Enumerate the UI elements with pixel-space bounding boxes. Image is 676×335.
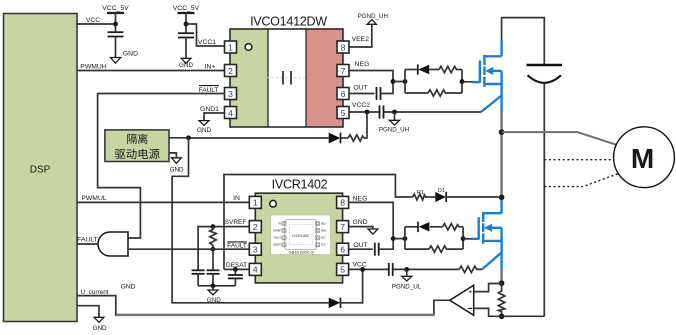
transistor Q2 (lower MOSFET, blue) <box>472 201 502 269</box>
wire VCC2 <box>349 111 380 113</box>
wire DC bus top <box>502 18 545 65</box>
pin 8 NEG <box>337 196 349 208</box>
wire VCC from DSP <box>77 23 116 25</box>
svg-text:FAULT: FAULT <box>274 237 282 240</box>
diode D2 (pointing left) <box>418 64 439 74</box>
op-amp U4 (current sense) <box>450 285 474 315</box>
svg-text:FAULT: FAULT <box>227 243 247 250</box>
svg-text:3: 3 <box>228 89 233 99</box>
wire PWMUH <box>77 70 225 72</box>
wire op-amp input- <box>474 308 502 316</box>
transistor Q1 (upper MOSFET, blue) <box>472 40 502 112</box>
svg-text:VCC: VCC <box>86 17 100 24</box>
svg-text:D1: D1 <box>438 188 445 194</box>
svg-text:VEE2: VEE2 <box>352 36 370 43</box>
svg-text:IVCR1402: IVCR1402 <box>292 234 309 238</box>
pin 7 NEG <box>337 65 349 77</box>
svg-text:VCC2: VCC2 <box>352 102 370 109</box>
svg-text:NEG: NEG <box>321 222 326 225</box>
pin 3 FAULT <box>225 88 237 100</box>
motor M1 <box>614 127 675 188</box>
junction dot <box>392 110 397 115</box>
wire VEE2 to PGND_UH <box>349 24 372 47</box>
wire OUT cap to junction <box>379 239 394 250</box>
svg-text:IVCO1412DW: IVCO1412DW <box>250 15 327 29</box>
wire phase node vertical <box>500 112 503 201</box>
junction dot VCC node <box>113 22 118 27</box>
svg-text:1: 1 <box>228 42 233 52</box>
svg-text:8: 8 <box>341 42 346 52</box>
wire motor phase 3 (dotted) <box>544 174 618 187</box>
svg-text:4: 4 <box>228 108 233 118</box>
wire source to shunt <box>500 269 503 284</box>
svg-text:3: 3 <box>253 245 258 255</box>
node FAULT label (chip1 pin3, overline) <box>199 86 219 95</box>
diode D5 (pointing left) <box>418 222 443 232</box>
ground GND (cap network) <box>207 286 221 304</box>
svg-text:VCC1: VCC1 <box>198 39 216 46</box>
wire from isolated supply to VCC2 <box>364 112 367 138</box>
svg-text:5: 5 <box>341 108 346 118</box>
diode D3 (supply to VCC2) <box>189 133 349 144</box>
capacitor C10 (VCC decoupling) <box>389 263 393 276</box>
svg-text:GND: GND <box>123 51 138 58</box>
svg-text:U_current: U_current <box>80 289 108 296</box>
wire VCC to source resistor <box>393 268 460 270</box>
power VCC_5V supply 1 <box>102 5 129 32</box>
wire top branch <box>405 226 418 228</box>
ground GND (supply block) <box>169 153 184 174</box>
junction dot gate2 node <box>461 236 466 241</box>
wire DESAT <box>224 268 249 270</box>
capacitor C2 <box>178 33 194 58</box>
chip U2 IVCR1402 <box>255 178 342 283</box>
wire OUT chip2 <box>349 248 373 250</box>
junction dot gate node <box>460 79 465 84</box>
pin 1 VCC1 <box>225 41 237 53</box>
junction node A1 <box>391 79 396 84</box>
wire PWMUL to IN <box>77 201 249 203</box>
capacitor C7 <box>207 249 220 286</box>
svg-text:NEG: NEG <box>353 195 368 202</box>
capacitor C4 (VCC2 decoupling) <box>380 106 384 119</box>
wire OUT cap to junction <box>381 82 394 94</box>
resistor R1 <box>413 190 436 200</box>
ground GND (DSP) <box>93 317 107 332</box>
pin 7 GND <box>337 221 349 233</box>
pin 6 OUT <box>337 243 349 255</box>
wire to MOSFET2 gate <box>463 238 472 240</box>
capacitor C9 (series on OUT) <box>375 243 379 256</box>
wire VCC2 to source kelvin <box>384 111 482 113</box>
DSP block U3 <box>4 14 78 322</box>
wire SVREF <box>198 227 249 271</box>
ground GND <box>179 58 193 69</box>
isolated supply block PS1 <box>105 130 169 162</box>
wire OUT to capacitor <box>349 93 375 95</box>
tiny pin marks of inner package <box>282 222 320 247</box>
resistor R3 <box>428 90 462 96</box>
wire cap common <box>198 285 235 287</box>
svg-text:2: 2 <box>228 66 233 76</box>
svg-text:DESAT: DESAT <box>273 244 281 247</box>
svg-text:GND: GND <box>93 325 107 332</box>
wire supply output <box>169 137 189 139</box>
pin 3 FAULT <box>249 243 261 255</box>
svg-text:GND: GND <box>120 283 135 290</box>
ground GND <box>110 51 138 64</box>
pin 5 VCC <box>337 263 349 275</box>
junction dot <box>211 247 216 252</box>
resistor R5 (vertical) <box>210 227 216 250</box>
svg-text:VCC: VCC <box>352 261 366 268</box>
svg-text:OUT: OUT <box>321 237 327 240</box>
op-amp U1 isolated gate driver IVCO1412DW <box>230 15 343 128</box>
svg-text:DSP: DSP <box>30 165 51 176</box>
capacitor C8 (DESAT) <box>228 269 243 285</box>
junction dot supply node <box>186 135 191 140</box>
wire to VCC1 pin <box>186 24 225 46</box>
svg-text:6: 6 <box>341 89 346 99</box>
diode D4 (supply to VCC chip2) <box>329 269 363 308</box>
svg-text:SVREF: SVREF <box>273 229 282 232</box>
junction dot <box>403 236 408 241</box>
svg-text:6: 6 <box>340 245 345 255</box>
svg-text:GND: GND <box>179 62 193 69</box>
wire to gate network 2 <box>393 238 405 240</box>
wire op-amp input+ <box>474 284 502 292</box>
resistor R7 <box>429 246 463 252</box>
wire FAULT from chip1 pin3 to gate G1 top input <box>98 94 225 239</box>
wire FAULT row (gate to chip2 pin3) <box>128 248 249 250</box>
node phase junction <box>499 129 505 135</box>
wire VCC chip2 <box>349 268 389 270</box>
svg-text:OUT: OUT <box>353 242 367 249</box>
svg-text:SVREF: SVREF <box>225 219 247 226</box>
capacitor C1 <box>108 32 124 57</box>
wire GND1 <box>204 113 225 121</box>
capacitor C5 (DC link, polarized) <box>527 65 563 317</box>
svg-text:4: 4 <box>253 265 258 275</box>
svg-text:7: 7 <box>341 66 346 76</box>
svg-text:GND: GND <box>170 167 184 174</box>
resistor R6 <box>443 224 464 230</box>
svg-text:IVCR1402: IVCR1402 <box>272 178 328 192</box>
svg-text:PWMUH: PWMUH <box>80 63 107 70</box>
wire to MOSFET gate <box>462 81 474 83</box>
gate network N1: left rail <box>404 70 406 94</box>
wire NEG <box>349 71 393 82</box>
wire negative rail <box>502 315 545 317</box>
pin 5 VCC2 <box>337 107 349 119</box>
svg-text:5: 5 <box>340 265 345 275</box>
junction dot <box>365 110 370 115</box>
junction node D1 branch <box>499 195 505 201</box>
pin 2 SVREF <box>249 221 261 233</box>
wire supply to chip2 VCC <box>172 138 329 303</box>
svg-text:PWMUL: PWMUL <box>81 195 107 202</box>
junction dot <box>499 314 505 320</box>
svg-text:VCC: VCC <box>321 244 326 247</box>
svg-text:GB16 (SOC-8: GB16 (SOC-8 <box>289 250 315 255</box>
svg-text:GND: GND <box>207 297 221 304</box>
pin 1 IN <box>249 196 261 208</box>
svg-text:GND1: GND1 <box>200 106 219 113</box>
resistor R4 <box>348 135 364 141</box>
wire to gate network <box>393 81 405 83</box>
svg-text:OUT: OUT <box>353 84 367 91</box>
gate network 2 right rail <box>462 227 464 249</box>
resistor R9 (shunt, vertical) <box>498 284 504 317</box>
junction dot (to supply diode) <box>360 267 365 272</box>
svg-text:1: 1 <box>253 198 258 208</box>
junction dot <box>404 267 409 272</box>
node FAULT label (chip2, overline) <box>227 242 247 250</box>
capacitor C6 <box>192 270 205 286</box>
pin 4 GND1 <box>225 107 237 119</box>
svg-text:IN+: IN+ <box>205 63 216 70</box>
gate network right rail <box>461 70 463 94</box>
wire motor phase 2 (dotted) <box>544 159 613 161</box>
svg-text:7: 7 <box>340 222 345 232</box>
svg-text:NEG: NEG <box>355 61 370 68</box>
gate network N2 left rail <box>404 227 406 249</box>
svg-text:IN: IN <box>233 195 240 202</box>
svg-text:M: M <box>631 143 654 174</box>
svg-text:8: 8 <box>340 198 345 208</box>
svg-text:2: 2 <box>253 222 258 232</box>
ground GND (pin4) <box>197 121 211 134</box>
svg-text:PGND_UH: PGND_UH <box>379 126 409 133</box>
wire op-amp output to U_current <box>434 300 450 315</box>
junction dot <box>211 283 216 288</box>
power PGND_UH (up arrow) <box>358 13 388 24</box>
svg-text:GND: GND <box>352 219 367 226</box>
resistor R8 (source kelvin) <box>459 266 482 272</box>
junction dot <box>499 280 505 286</box>
svg-text:VCC_5V: VCC_5V <box>173 5 200 12</box>
svg-text:GND: GND <box>321 229 327 232</box>
wire bottom branch <box>405 92 428 94</box>
junction dot <box>184 22 189 27</box>
resistor R2 <box>439 66 462 72</box>
gate G1 (fault combine, mirrored AND) <box>98 232 128 256</box>
svg-text:IN: IN <box>278 222 281 225</box>
power VCC_5V supply 2 <box>173 5 200 33</box>
wire DESAT loop (chip2 pin4 to drain) <box>224 175 413 270</box>
svg-text:FAULT: FAULT <box>77 237 98 244</box>
wire NEG chip2 <box>349 202 394 238</box>
wire phase to motor <box>502 132 616 145</box>
ground (pin7) <box>368 229 378 234</box>
capacitor C3 (series on OUT) <box>377 87 381 100</box>
pin 4 DESAT <box>249 263 261 275</box>
junction dot <box>391 236 396 241</box>
wire gate output to DSP FAULT <box>77 243 98 245</box>
svg-text:VCC_5V: VCC_5V <box>102 5 129 12</box>
pin 8 VEE2 <box>337 41 349 53</box>
pin 6 OUT <box>337 88 349 100</box>
power PGND_UH (down arrow) <box>379 112 409 133</box>
pin 2 IN+ <box>225 65 237 77</box>
power PGND_UL (down arrow) <box>392 269 422 290</box>
svg-text:PGND_UH: PGND_UH <box>358 13 388 20</box>
wire top branch <box>405 69 418 71</box>
svg-text:GND: GND <box>197 127 211 134</box>
tiny pin labels of inner package <box>273 222 326 246</box>
svg-text:PGND_UL: PGND_UL <box>392 283 422 290</box>
junction dot <box>233 267 238 272</box>
wire bottom branch <box>405 248 429 250</box>
junction dot <box>403 79 408 84</box>
diode D1 <box>435 188 501 202</box>
junction dot <box>211 224 216 229</box>
wire DSP gnd stub <box>77 306 99 318</box>
wire GND pin7 <box>349 227 373 229</box>
